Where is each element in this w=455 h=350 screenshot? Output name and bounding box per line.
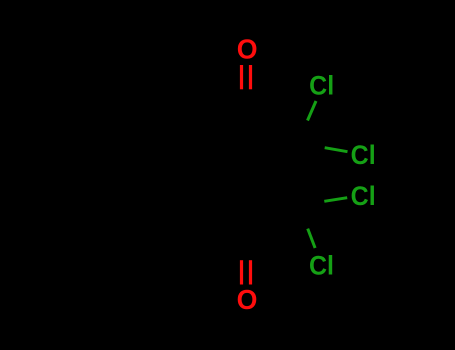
svg-text:Cl: Cl — [351, 181, 376, 211]
svg-text:O: O — [237, 284, 258, 315]
svg-text:Cl: Cl — [351, 140, 376, 170]
svg-text:Cl: Cl — [309, 70, 334, 100]
svg-text:Cl: Cl — [309, 250, 334, 280]
svg-text:O: O — [237, 33, 258, 64]
